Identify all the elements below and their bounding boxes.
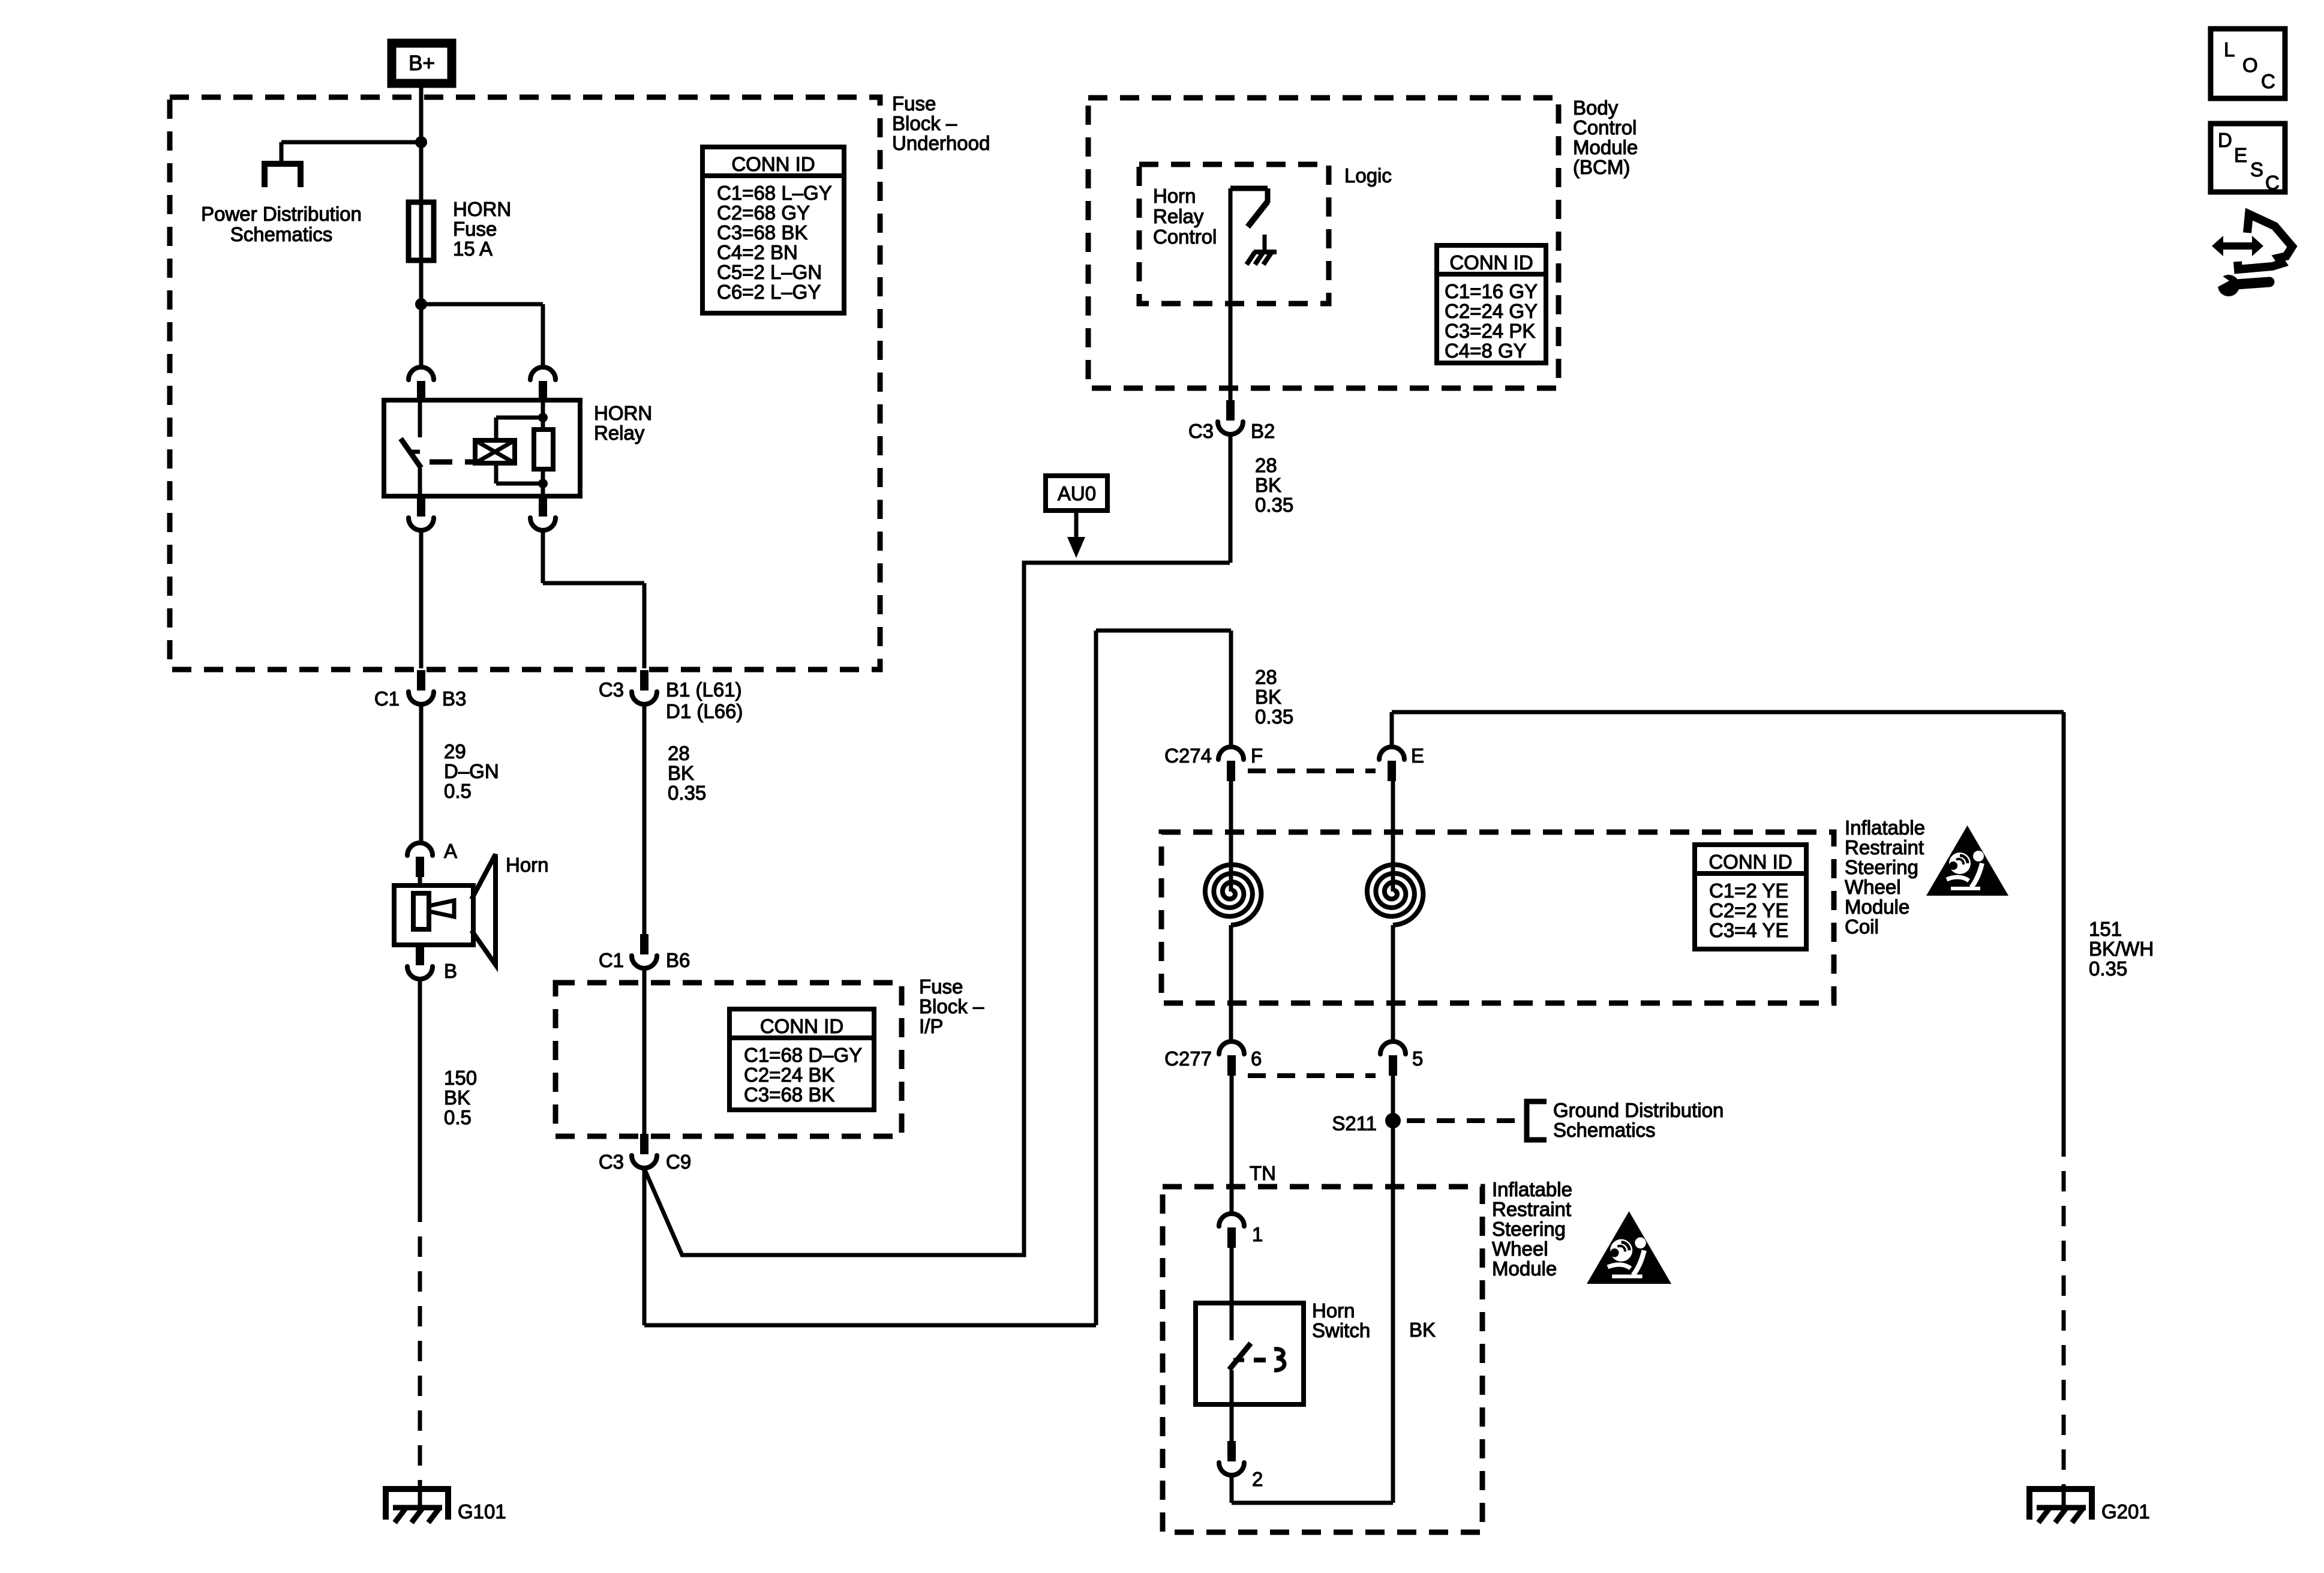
svg-text:B: B [444,960,457,982]
svg-text:Control: Control [1573,116,1637,139]
svg-text:Switch: Switch [1312,1319,1370,1341]
svg-text:TN: TN [1250,1162,1276,1184]
svg-text:B6: B6 [666,949,690,971]
svg-text:G201: G201 [2101,1500,2150,1523]
svg-text:BK: BK [1255,686,1281,708]
svg-text:Body: Body [1573,97,1619,119]
svg-text:BK: BK [444,1086,470,1109]
svg-text:Module: Module [1845,896,1909,918]
svg-text:C3: C3 [599,679,624,701]
svg-text:C1=2 YE: C1=2 YE [1709,879,1788,902]
svg-text:B1 (L61): B1 (L61) [666,679,742,701]
svg-text:Schematics: Schematics [230,223,333,245]
svg-text:Block –: Block – [892,112,957,134]
svg-text:L: L [2224,38,2235,61]
svg-text:CONN ID: CONN ID [1709,851,1792,873]
svg-text:S211: S211 [1332,1112,1377,1134]
svg-text:C: C [2261,70,2275,92]
svg-text:28: 28 [1255,666,1277,688]
svg-text:Inflatable: Inflatable [1492,1178,1572,1200]
svg-text:Wheel: Wheel [1845,876,1901,898]
svg-text:E: E [1411,745,1424,767]
svg-text:Wheel: Wheel [1492,1238,1548,1260]
svg-text:C1=68 D–GY: C1=68 D–GY [744,1044,862,1066]
svg-text:Horn: Horn [1153,185,1196,207]
svg-text:C274: C274 [1164,745,1212,767]
svg-text:BK: BK [1409,1319,1436,1341]
svg-text:Restraint: Restraint [1492,1198,1571,1220]
svg-text:Control: Control [1153,226,1217,248]
svg-text:C2=24 GY: C2=24 GY [1445,300,1538,322]
svg-text:Fuse: Fuse [919,975,963,998]
svg-text:Steering: Steering [1845,856,1918,878]
svg-text:C3=68 BK: C3=68 BK [744,1083,834,1106]
svg-text:Underhood: Underhood [892,132,990,154]
svg-text:I/P: I/P [919,1015,943,1037]
svg-text:A: A [444,840,457,862]
svg-text:D1 (L66): D1 (L66) [666,700,743,722]
svg-text:F: F [1251,745,1263,767]
svg-text:C: C [2265,172,2280,194]
svg-text:28: 28 [1255,454,1277,476]
svg-text:G101: G101 [458,1500,506,1523]
svg-text:15 A: 15 A [453,238,493,260]
svg-text:0.35: 0.35 [1255,494,1293,516]
svg-text:O: O [2242,54,2258,76]
svg-text:BK: BK [668,762,694,784]
svg-text:0.35: 0.35 [668,782,706,804]
svg-text:Power Distribution: Power Distribution [201,203,362,225]
svg-text:29: 29 [444,740,466,763]
svg-text:0.35: 0.35 [2089,957,2127,980]
svg-text:C9: C9 [666,1151,691,1173]
svg-text:B2: B2 [1251,420,1275,442]
svg-text:C3=68 BK: C3=68 BK [717,221,807,244]
svg-text:C1: C1 [599,949,624,971]
svg-text:Logic: Logic [1344,164,1392,187]
svg-text:1: 1 [1252,1223,1263,1245]
svg-text:D–GN: D–GN [444,760,499,782]
svg-text:Inflatable: Inflatable [1845,816,1925,839]
svg-text:C6=2 L–GY: C6=2 L–GY [717,281,821,303]
svg-text:CONN ID: CONN ID [1449,251,1533,274]
svg-text:5: 5 [1412,1047,1423,1070]
svg-text:HORN: HORN [594,402,652,424]
svg-text:C3=4 YE: C3=4 YE [1709,919,1788,941]
svg-text:Steering: Steering [1492,1218,1566,1240]
svg-text:Restraint: Restraint [1845,836,1924,858]
svg-text:0.35: 0.35 [1255,706,1293,728]
svg-text:0.5: 0.5 [444,780,472,802]
svg-text:BK: BK [1255,474,1281,496]
svg-text:B3: B3 [442,688,466,710]
svg-text:AU0: AU0 [1058,482,1096,505]
svg-text:Horn: Horn [506,854,549,876]
svg-text:HORN: HORN [453,198,511,220]
svg-text:Module: Module [1492,1257,1557,1280]
svg-text:6: 6 [1251,1047,1262,1070]
svg-text:S: S [2250,158,2263,181]
svg-text:C2=68 GY: C2=68 GY [717,202,810,224]
svg-text:Coil: Coil [1845,915,1879,938]
svg-text:C5=2 L–GN: C5=2 L–GN [717,261,822,283]
svg-text:C1=16 GY: C1=16 GY [1445,280,1538,302]
svg-text:Ground Distribution: Ground Distribution [1553,1099,1724,1121]
svg-text:C3=24 PK: C3=24 PK [1445,320,1535,342]
svg-text:Fuse: Fuse [892,92,936,115]
svg-text:CONN ID: CONN ID [760,1015,843,1037]
svg-text:Fuse: Fuse [453,218,497,240]
svg-text:CONN ID: CONN ID [731,153,815,175]
svg-text:Horn: Horn [1312,1299,1355,1322]
svg-text:D: D [2218,129,2232,151]
svg-text:Block –: Block – [919,995,984,1017]
svg-text:(BCM): (BCM) [1573,156,1630,178]
svg-text:C2=2 YE: C2=2 YE [1709,899,1788,921]
svg-text:C1=68 L–GY: C1=68 L–GY [717,182,832,204]
svg-text:C4=8 GY: C4=8 GY [1445,340,1527,362]
svg-text:Relay: Relay [594,422,645,444]
svg-text:2: 2 [1252,1468,1263,1490]
svg-text:C4=2 BN: C4=2 BN [717,241,798,263]
svg-text:150: 150 [444,1067,477,1089]
svg-text:C2=24 BK: C2=24 BK [744,1064,834,1086]
svg-text:C3: C3 [1188,420,1214,442]
svg-text:B+: B+ [409,52,435,75]
svg-text:0.5: 0.5 [444,1106,472,1128]
svg-text:Relay: Relay [1153,205,1204,227]
svg-text:28: 28 [668,742,690,764]
svg-text:C277: C277 [1164,1047,1212,1070]
svg-text:E: E [2234,144,2247,166]
svg-text:C1: C1 [374,688,400,710]
svg-text:C3: C3 [599,1151,624,1173]
svg-text:151: 151 [2089,918,2122,940]
svg-text:Module: Module [1573,136,1638,158]
svg-text:BK/WH: BK/WH [2089,938,2154,960]
svg-text:Schematics: Schematics [1553,1119,1656,1141]
